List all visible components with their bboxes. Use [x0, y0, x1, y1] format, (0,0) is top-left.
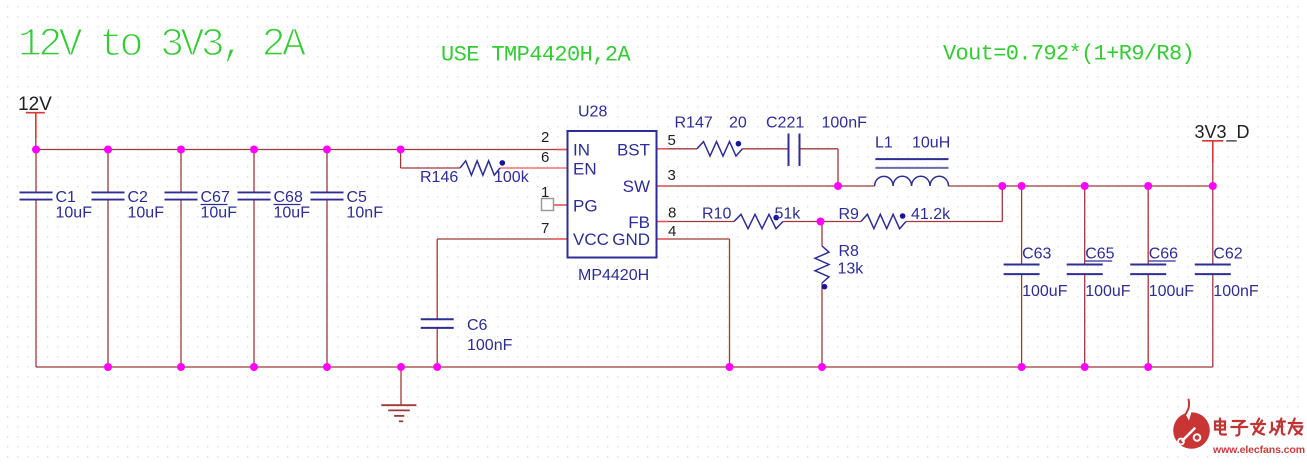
svg-text:C67: C67: [201, 189, 230, 206]
svg-text:USE TMP4420H,2A: USE TMP4420H,2A: [441, 43, 631, 68]
svg-text:100uF: 100uF: [1022, 283, 1068, 300]
svg-text:2: 2: [541, 129, 549, 146]
svg-text:100uF: 100uF: [1149, 283, 1195, 300]
svg-text:C63: C63: [1022, 246, 1051, 263]
svg-text:12V to 3V3, 2A: 12V to 3V3, 2A: [18, 23, 306, 68]
svg-text:10uF: 10uF: [56, 205, 93, 222]
svg-text:GND: GND: [612, 230, 650, 249]
svg-text:8: 8: [668, 205, 676, 222]
svg-text:10uH: 10uH: [912, 135, 950, 152]
svg-text:SW: SW: [623, 177, 650, 196]
svg-text:C66: C66: [1149, 246, 1178, 263]
svg-text:VCC: VCC: [573, 230, 609, 249]
svg-text:10nF: 10nF: [347, 205, 384, 222]
svg-text:C1: C1: [56, 189, 77, 206]
svg-text:C65: C65: [1085, 246, 1114, 263]
svg-text:100k: 100k: [494, 169, 530, 186]
svg-text:C221: C221: [766, 115, 804, 132]
svg-text:12V: 12V: [18, 94, 52, 115]
svg-text:100nF: 100nF: [1213, 283, 1259, 300]
svg-text:4: 4: [668, 223, 676, 240]
svg-text:C5: C5: [347, 189, 368, 206]
svg-text:7: 7: [541, 220, 549, 237]
svg-text:EN: EN: [573, 160, 597, 179]
svg-text:3V3_D: 3V3_D: [1195, 122, 1250, 143]
svg-text:100uF: 100uF: [1085, 283, 1131, 300]
svg-text:100nF: 100nF: [822, 115, 868, 132]
svg-text:10uF: 10uF: [201, 205, 238, 222]
svg-text:C2: C2: [128, 189, 149, 206]
svg-text:U28: U28: [578, 104, 607, 121]
svg-text:51k: 51k: [775, 206, 802, 223]
svg-text:C62: C62: [1213, 246, 1242, 263]
svg-text:C68: C68: [274, 189, 303, 206]
svg-text:www.elecfans.com: www.elecfans.com: [1212, 444, 1305, 456]
svg-text:100nF: 100nF: [467, 337, 513, 354]
svg-text:20: 20: [729, 115, 747, 132]
svg-text:R9: R9: [839, 206, 860, 223]
svg-text:41.2k: 41.2k: [911, 206, 951, 223]
svg-text:5: 5: [668, 132, 676, 149]
svg-text:10uF: 10uF: [274, 205, 311, 222]
svg-text:6: 6: [541, 149, 549, 166]
svg-text:L1: L1: [875, 135, 893, 152]
svg-text:10uF: 10uF: [128, 205, 165, 222]
svg-text:BST: BST: [617, 141, 650, 160]
svg-text:3: 3: [668, 167, 676, 184]
svg-text:13k: 13k: [838, 261, 865, 278]
svg-text:R146: R146: [420, 169, 458, 186]
svg-text:1: 1: [541, 184, 549, 201]
svg-text:PG: PG: [573, 197, 598, 216]
svg-text:C6: C6: [467, 317, 488, 334]
svg-text:R10: R10: [702, 206, 731, 223]
svg-text:Vout=0.792*(1+R9/R8): Vout=0.792*(1+R9/R8): [943, 42, 1194, 67]
svg-text:R147: R147: [675, 115, 713, 132]
svg-text:IN: IN: [573, 141, 590, 160]
svg-text:R8: R8: [839, 243, 860, 260]
svg-text:MP4420H: MP4420H: [578, 267, 649, 284]
